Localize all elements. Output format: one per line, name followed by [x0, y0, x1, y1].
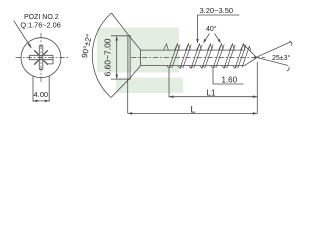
- thread bottom teeth: [167, 66, 172, 69]
- leader 40 degrees left: [204, 34, 210, 43]
- tip angle lower hook: [287, 67, 289, 71]
- arrow L1 left: [169, 95, 174, 98]
- dimension line 4.00: [33, 100, 49, 102]
- L1 dimension line: [169, 96, 257, 98]
- thread top teeth: [164, 44, 169, 50]
- thread crest diagonals: [169, 44, 180, 69]
- arrow 40 left: [203, 39, 206, 43]
- svg-text:Q:1.76~2.06: Q:1.76~2.06: [20, 21, 60, 30]
- leader line from Q label to recess: [14, 21, 31, 48]
- svg-text:4.00: 4.00: [34, 90, 49, 99]
- svg-text:6.60~7.00: 6.60~7.00: [103, 38, 113, 76]
- side view: axis centerline: [131, 57, 265, 59]
- extension lines for 4.00: [33, 76, 49, 102]
- tip cone bottom edge: [245, 58, 257, 66]
- side view: head diameter dimension line: [116, 37, 118, 79]
- front view: head outline circle: [21, 38, 61, 78]
- side view: head flat face lines: [128, 36, 130, 79]
- leader 1.60: [213, 69, 244, 84]
- svg-text:L1: L1: [207, 89, 216, 98]
- svg-text:25±3°: 25±3°: [272, 54, 291, 62]
- extension line thread start for L1: [168, 69, 170, 97]
- side view: cone-shank junction line: [140, 50, 142, 66]
- watermark green block 1: [97, 28, 179, 73]
- arrow 3.20 leader: [196, 39, 199, 44]
- front view: vertical centerline: [40, 33, 42, 82]
- pozi recess horizontal slot: [29, 55, 53, 64]
- arrow 4.00 right: [45, 100, 50, 103]
- tip cone top edge: [243, 44, 257, 58]
- L dimension line: [128, 112, 258, 114]
- side view: head extension lines: [111, 36, 131, 79]
- arrow L right: [253, 112, 257, 115]
- extension line at tip for L and L1: [256, 62, 258, 113]
- tip angle upper line: [254, 42, 291, 58]
- side view: shank/root top line: [141, 49, 244, 51]
- leader 3.20~3.50: [198, 15, 240, 43]
- arrow head dim top: [115, 36, 118, 41]
- front view: horizontal centerline: [16, 57, 71, 59]
- arrow Q leader: [28, 43, 32, 48]
- side view: angle fan upper line: [112, 13, 141, 50]
- side view: shank/root bottom line: [141, 65, 245, 67]
- last crest on tip cone: [242, 46, 251, 67]
- svg-text:L: L: [191, 105, 196, 115]
- svg-text:3.20~3.50: 3.20~3.50: [200, 6, 234, 15]
- arrow L left: [128, 112, 133, 115]
- pozi recess diagonal wings: [34, 50, 48, 64]
- leader 40 degrees right: [215, 34, 221, 43]
- arrow head dim bottom: [115, 75, 118, 80]
- arrow 40 right: [218, 39, 221, 43]
- arrow L1 right: [253, 95, 257, 98]
- extension line head for L: [127, 79, 129, 113]
- thread: [164, 44, 252, 69]
- side view: angle fan arc: [92, 13, 111, 98]
- arrowheads: [28, 36, 257, 115]
- arrow 4.00 left: [33, 100, 38, 103]
- svg-text:1.60: 1.60: [222, 76, 238, 85]
- svg-text:40°: 40°: [206, 25, 217, 33]
- pozi recess vertical slot: [39, 46, 43, 70]
- side view: angle fan lower line: [111, 66, 141, 98]
- tip angle upper hook: [289, 41, 292, 46]
- watermark green block 2: [116, 78, 183, 94]
- tip angle lower line: [254, 57, 288, 66]
